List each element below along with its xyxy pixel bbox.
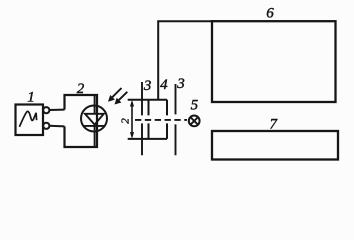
- lens line 3 right (with gap at optical axis): [175, 84, 177, 155]
- terminal circle lower: [43, 123, 49, 129]
- svg-text:2: 2: [77, 81, 85, 97]
- svg-text:3: 3: [143, 78, 152, 94]
- wire upper terminal to box 2: [49, 109, 64, 111]
- terminal circle upper: [43, 107, 49, 113]
- photodiode circle: [81, 106, 107, 132]
- lamp 5 (light source): [189, 116, 200, 127]
- box 2 (photodetector) outline with open left side: [65, 95, 98, 147]
- svg-text:1: 1: [27, 90, 35, 106]
- svg-text:2: 2: [120, 118, 132, 124]
- cell 4 left edge: [148, 100, 150, 139]
- lens line 3 left (with gap at optical axis): [141, 82, 143, 155]
- svg-text:5: 5: [191, 98, 199, 114]
- incoming light arrow upper: [111, 88, 122, 99]
- cell 4 top plate line: [128, 99, 167, 101]
- dimension double arrow: [131, 103, 133, 137]
- box 1 (generator unit): [16, 105, 44, 136]
- sine symbol inside box 1: [19, 111, 36, 126]
- svg-text:3: 3: [176, 76, 185, 92]
- wire lower terminal to box 2: [49, 125, 64, 128]
- svg-text:6: 6: [266, 6, 274, 22]
- dashed optical axis: [135, 119, 187, 121]
- wire from cell 4 up and right to box 6: [158, 21, 212, 100]
- cell 4 bottom plate line: [128, 138, 167, 140]
- photodiode symbol (triangle and bar): [84, 95, 104, 147]
- box 7: [212, 131, 338, 160]
- incoming light arrow lower: [117, 92, 127, 102]
- box 6: [212, 21, 336, 102]
- svg-text:4: 4: [160, 77, 168, 93]
- cell 4 right edge: [166, 100, 168, 139]
